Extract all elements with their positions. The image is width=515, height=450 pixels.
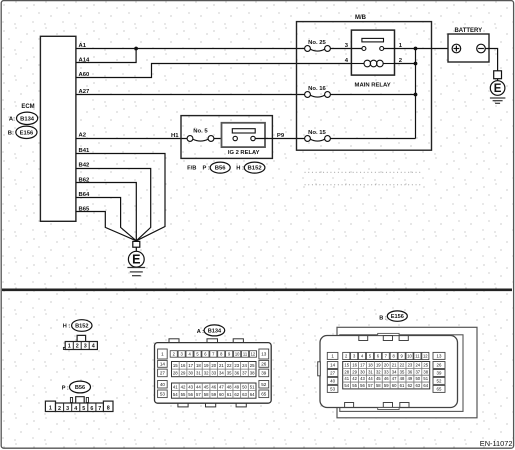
- svg-text:B152: B152: [75, 324, 88, 330]
- main relay coil: [351, 60, 394, 67]
- connector A: B134 shell: [155, 339, 272, 407]
- svg-text:34: 34: [392, 369, 397, 374]
- wire B42 to ground: [76, 169, 151, 241]
- wire main relay pin 2 to bus: [395, 63, 416, 65]
- svg-text:52: 52: [437, 379, 442, 384]
- svg-text:40: 40: [330, 379, 335, 384]
- wire fuse No.16 to bus: [330, 94, 415, 96]
- svg-text:3: 3: [84, 344, 87, 350]
- svg-text:A:: A:: [9, 116, 15, 122]
- junction bus/coil pin 2: [414, 62, 418, 66]
- svg-text:58: 58: [376, 383, 381, 388]
- svg-text:4: 4: [74, 406, 77, 412]
- svg-text:M/B: M/B: [355, 15, 367, 21]
- svg-text:E156: E156: [391, 314, 404, 320]
- M/B fuse box: [297, 22, 432, 151]
- svg-text:28: 28: [173, 370, 178, 375]
- svg-text:52: 52: [261, 382, 267, 387]
- svg-text:47: 47: [219, 384, 224, 389]
- wire fuse No.5 to IG2 relay contact: [214, 138, 233, 140]
- svg-text:24: 24: [415, 362, 420, 367]
- svg-text:20: 20: [384, 362, 389, 367]
- svg-text:No. 15: No. 15: [308, 130, 326, 136]
- IG 2 relay contact circles: [233, 136, 255, 140]
- svg-text:48: 48: [400, 376, 405, 381]
- svg-text:16: 16: [352, 362, 357, 367]
- svg-text:MAIN RELAY: MAIN RELAY: [355, 83, 391, 89]
- ground E (battery): [490, 71, 506, 104]
- svg-text:35: 35: [400, 369, 405, 374]
- svg-text:16: 16: [181, 363, 186, 368]
- svg-text:27: 27: [160, 371, 166, 376]
- svg-text:10: 10: [407, 354, 412, 359]
- svg-text:BATTERY: BATTERY: [454, 28, 482, 34]
- svg-text:51: 51: [423, 376, 428, 381]
- svg-text:18: 18: [196, 363, 201, 368]
- svg-text:45: 45: [376, 376, 381, 381]
- svg-text:55: 55: [181, 392, 186, 397]
- svg-text:43: 43: [188, 384, 193, 389]
- IG2 connector refs F/B P: B56 H: B152: [187, 162, 265, 173]
- svg-text:60: 60: [392, 383, 397, 388]
- svg-text:45: 45: [204, 384, 209, 389]
- svg-text:30: 30: [360, 369, 365, 374]
- svg-text:13: 13: [261, 352, 267, 357]
- svg-text:B134: B134: [20, 116, 35, 122]
- wire B41 to ground: [76, 154, 165, 241]
- svg-text:1: 1: [68, 344, 71, 350]
- svg-text:50: 50: [242, 384, 247, 389]
- svg-text:1: 1: [49, 405, 52, 411]
- svg-text:2: 2: [76, 344, 79, 350]
- svg-text:B :: B :: [379, 315, 387, 321]
- svg-text:63: 63: [415, 383, 420, 388]
- svg-text:19: 19: [204, 363, 209, 368]
- svg-text:35: 35: [227, 370, 232, 375]
- svg-text:30: 30: [188, 370, 193, 375]
- svg-text:B152: B152: [248, 166, 263, 172]
- connector H: B152 label: [63, 320, 92, 332]
- svg-text:37: 37: [415, 369, 420, 374]
- connector B: E156 label: [379, 311, 407, 321]
- fuse No. 15: [305, 136, 331, 142]
- svg-text:A2: A2: [79, 133, 87, 139]
- svg-text:E: E: [132, 253, 140, 267]
- svg-text:19: 19: [376, 362, 381, 367]
- wire A2 to IG 2 relay pin H1: [76, 138, 187, 140]
- junction A1/A14: [134, 47, 138, 51]
- svg-text:44: 44: [196, 384, 201, 389]
- fuse No. 25: [305, 46, 331, 52]
- svg-text:25: 25: [250, 363, 255, 368]
- svg-text:6: 6: [90, 406, 93, 412]
- svg-text:A :: A :: [197, 329, 204, 335]
- svg-text:50: 50: [415, 376, 420, 381]
- svg-text:12: 12: [251, 351, 256, 356]
- ECM connector ref B: E156: [8, 126, 37, 138]
- svg-text:38: 38: [250, 370, 255, 375]
- svg-text:65: 65: [437, 387, 442, 392]
- svg-text:10: 10: [235, 351, 240, 356]
- svg-text:56: 56: [360, 383, 365, 388]
- svg-text:7: 7: [98, 406, 101, 412]
- svg-text:B42: B42: [79, 163, 91, 169]
- wire into contact: [351, 48, 394, 50]
- connector E156 right pin column (13,26,39,52,65): [433, 352, 445, 392]
- svg-text:57: 57: [196, 392, 201, 397]
- svg-text:28: 28: [344, 369, 349, 374]
- svg-text:41: 41: [173, 384, 178, 389]
- svg-text:22: 22: [400, 362, 405, 367]
- svg-text:37: 37: [242, 370, 247, 375]
- svg-text:59: 59: [211, 392, 216, 397]
- main relay contact bar: [362, 38, 384, 42]
- wire B64 to ground: [76, 198, 136, 241]
- svg-text:26: 26: [261, 362, 267, 367]
- wire A60 to main relay coil pin 4: [76, 64, 352, 78]
- svg-text:46: 46: [384, 376, 389, 381]
- svg-text:49: 49: [234, 384, 239, 389]
- svg-text:32: 32: [204, 370, 209, 375]
- connector P: B56 label: [62, 381, 91, 393]
- svg-text:No. 16: No. 16: [308, 86, 326, 92]
- svg-text:42: 42: [181, 384, 186, 389]
- connector A: B134 label: [197, 325, 225, 336]
- svg-text:54: 54: [344, 383, 349, 388]
- svg-text:42: 42: [352, 376, 357, 381]
- connector P: B56 body: [45, 397, 113, 412]
- connector B134 pin block 41-51 / 54-64: [172, 383, 257, 398]
- svg-text:46: 46: [211, 384, 216, 389]
- svg-text:No. 25: No. 25: [308, 40, 326, 46]
- svg-text:39: 39: [261, 371, 267, 376]
- svg-text:14: 14: [160, 362, 166, 367]
- battery plus terminal: [452, 44, 461, 53]
- battery minus terminal: [477, 44, 486, 53]
- svg-text:59: 59: [384, 383, 389, 388]
- svg-text:55: 55: [352, 383, 357, 388]
- fuse No. 16: [305, 92, 331, 98]
- bus wire vertical: [415, 49, 417, 139]
- svg-text:B56: B56: [215, 166, 227, 172]
- svg-text:22: 22: [227, 363, 232, 368]
- svg-text:34: 34: [219, 370, 224, 375]
- fuse No. 5: [187, 136, 214, 142]
- wire A1 from ECM to fuse No. 25: [76, 48, 305, 50]
- connector E156 pin block 15-64: [343, 362, 430, 389]
- svg-text:58: 58: [204, 392, 209, 397]
- svg-text:23: 23: [234, 363, 239, 368]
- connector B134 left pin column (1,14,27,40,53): [158, 349, 168, 398]
- svg-text:41: 41: [344, 376, 349, 381]
- wire battery minus to ground: [485, 49, 497, 71]
- svg-text:24: 24: [242, 363, 247, 368]
- svg-text:H :: H :: [63, 324, 71, 330]
- svg-text:31: 31: [368, 369, 373, 374]
- wire IG2 relay to fuse No. 15: [255, 138, 304, 140]
- svg-text:26: 26: [437, 363, 442, 368]
- svg-text:38: 38: [423, 369, 428, 374]
- svg-text:B:: B:: [8, 130, 14, 136]
- IG 2 relay assembly box: [181, 116, 272, 159]
- wire B65 to ground: [76, 212, 136, 241]
- main relay box: [351, 30, 394, 75]
- svg-text:No. 5: No. 5: [193, 129, 208, 135]
- svg-text:17: 17: [188, 363, 193, 368]
- svg-text:5: 5: [82, 406, 85, 412]
- svg-text:27: 27: [330, 371, 335, 376]
- svg-text:P :: P :: [62, 386, 69, 392]
- svg-text:23: 23: [408, 362, 413, 367]
- svg-text:29: 29: [352, 369, 357, 374]
- svg-text:64: 64: [423, 383, 428, 388]
- svg-text:33: 33: [384, 369, 389, 374]
- svg-text:29: 29: [181, 370, 186, 375]
- svg-text:63: 63: [242, 392, 247, 397]
- svg-text:62: 62: [408, 383, 413, 388]
- wire fuse No.15 to bus: [330, 138, 415, 140]
- svg-text:48: 48: [227, 384, 232, 389]
- svg-text:64: 64: [250, 392, 255, 397]
- svg-text:61: 61: [400, 383, 405, 388]
- svg-text:40: 40: [160, 382, 166, 387]
- svg-text:B134: B134: [208, 328, 222, 334]
- svg-text:54: 54: [173, 392, 178, 397]
- connector B: E156 shell: [318, 327, 477, 418]
- connector H: B152 body: [63, 335, 97, 349]
- wire fuse No.25 to main relay pin 3: [330, 48, 362, 50]
- IG 2 relay contact bar: [232, 129, 255, 133]
- connector E156 left pin column (1,14,27,40,53): [327, 352, 338, 392]
- ECM block: [40, 36, 76, 221]
- connector B134 pin row 2-12: [170, 351, 256, 358]
- svg-text:B56: B56: [75, 385, 85, 391]
- svg-text:12: 12: [423, 354, 428, 359]
- wire A27 to fuse No. 16: [76, 94, 305, 96]
- svg-text:8: 8: [107, 405, 110, 411]
- svg-text:62: 62: [234, 392, 239, 397]
- svg-text:H1: H1: [171, 133, 179, 139]
- svg-text:13: 13: [437, 354, 442, 359]
- svg-text:25: 25: [423, 362, 428, 367]
- svg-text:IG 2 RELAY: IG 2 RELAY: [228, 150, 260, 156]
- svg-text:53: 53: [160, 392, 166, 397]
- svg-text:3: 3: [66, 406, 69, 412]
- svg-text:11: 11: [415, 354, 420, 359]
- svg-text:E: E: [494, 83, 502, 95]
- svg-text:21: 21: [392, 362, 397, 367]
- svg-text:15: 15: [173, 363, 178, 368]
- svg-text:44: 44: [368, 376, 373, 381]
- svg-text:57: 57: [368, 383, 373, 388]
- connector B134 pin block 15-25 / 28-38: [172, 362, 257, 377]
- junction bus/fuse No.16: [414, 93, 418, 97]
- battery box: [448, 34, 489, 62]
- svg-text:51: 51: [250, 384, 255, 389]
- junction bus/battery wire: [414, 47, 418, 51]
- svg-text:31: 31: [196, 370, 201, 375]
- svg-text:E156: E156: [20, 130, 34, 136]
- svg-text:65: 65: [261, 392, 267, 397]
- svg-text:ECM: ECM: [21, 104, 34, 110]
- svg-text:32: 32: [376, 369, 381, 374]
- svg-text:53: 53: [330, 387, 335, 392]
- svg-text:1: 1: [161, 352, 164, 357]
- wire main relay pin 1 to battery: [395, 48, 453, 50]
- svg-text:49: 49: [408, 376, 413, 381]
- svg-text:F/B: F/B: [187, 166, 196, 172]
- ECM connector ref A: B134: [9, 112, 38, 124]
- svg-text:61: 61: [227, 392, 232, 397]
- IG 2 relay inner box: [222, 123, 266, 147]
- svg-text:39: 39: [437, 371, 442, 376]
- main relay contact circles: [362, 47, 384, 51]
- svg-text:43: 43: [360, 376, 365, 381]
- ground E (ECM grounds): [127, 241, 145, 275]
- svg-text:17: 17: [360, 362, 365, 367]
- connector E156 pin row 2-12: [343, 352, 429, 359]
- svg-text:33: 33: [211, 370, 216, 375]
- svg-text:2: 2: [58, 406, 61, 412]
- wire A14 joining A1: [76, 49, 136, 63]
- svg-text:21: 21: [219, 363, 224, 368]
- svg-text:P9: P9: [277, 133, 285, 139]
- svg-text:H :: H :: [236, 166, 244, 172]
- svg-text:15: 15: [344, 362, 349, 367]
- connector B134 right pin column (13,26,39,52,65): [259, 349, 269, 398]
- svg-text:4: 4: [92, 344, 95, 350]
- svg-text:EN-11072: EN-11072: [480, 439, 513, 448]
- svg-text:56: 56: [188, 392, 193, 397]
- svg-text:P :: P :: [203, 166, 210, 172]
- svg-text:36: 36: [408, 369, 413, 374]
- svg-text:14: 14: [330, 363, 335, 368]
- wire B62 to ground: [76, 183, 136, 241]
- svg-text:60: 60: [219, 392, 224, 397]
- svg-text:18: 18: [368, 362, 373, 367]
- svg-text:36: 36: [234, 370, 239, 375]
- svg-text:11: 11: [243, 351, 248, 356]
- svg-text:47: 47: [392, 376, 397, 381]
- svg-text:20: 20: [211, 363, 216, 368]
